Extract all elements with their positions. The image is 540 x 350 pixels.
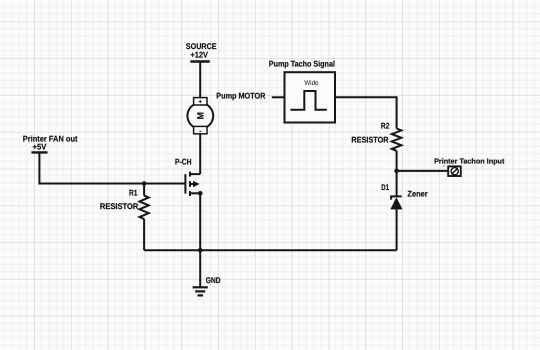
wire (bottom rail)	[144, 249, 397, 251]
junction	[198, 191, 203, 196]
svg-text:Printer FAN out: Printer FAN out	[23, 135, 78, 144]
resistor R1	[100, 184, 149, 251]
wire	[39, 152, 185, 183]
wire	[272, 96, 285, 98]
wire	[396, 151, 398, 171]
junction	[394, 169, 399, 174]
diode D1 (Zener)	[381, 183, 428, 209]
svg-text:M: M	[195, 112, 205, 120]
connector J1 Printer Tachon Input	[434, 156, 505, 176]
svg-text:R1: R1	[129, 189, 138, 198]
transistor Q1 P-CH MOSFET	[175, 157, 200, 196]
power terminal Printer FAN out +5V	[23, 135, 78, 153]
signal box Pump Tacho Signal	[269, 59, 335, 122]
wire	[335, 97, 397, 128]
svg-text:GND: GND	[206, 276, 221, 285]
resistor R2	[351, 121, 401, 150]
svg-text:D1: D1	[381, 183, 389, 192]
wire	[396, 209, 398, 250]
wire	[199, 250, 201, 287]
svg-text:R2: R2	[381, 121, 390, 130]
svg-text:RESISTOR: RESISTOR	[100, 202, 138, 211]
svg-text:+12V: +12V	[190, 51, 208, 60]
svg-text:+5V: +5V	[33, 143, 47, 152]
svg-text:Pump MOTOR: Pump MOTOR	[216, 92, 265, 101]
svg-text:RESISTOR: RESISTOR	[351, 136, 388, 145]
junction	[198, 248, 203, 253]
power terminal SOURCE +12V	[186, 42, 217, 61]
motor M1 (Pump MOTOR)	[187, 98, 213, 135]
wire	[397, 170, 448, 172]
svg-text:1: 1	[443, 164, 445, 168]
wire	[396, 171, 398, 197]
junction	[142, 181, 147, 186]
svg-text:P-CH: P-CH	[175, 157, 192, 166]
svg-text:Pump Tacho Signal: Pump Tacho Signal	[269, 59, 335, 68]
svg-text:Wide: Wide	[304, 80, 318, 87]
ground	[193, 276, 221, 295]
wire	[199, 134, 201, 174]
wire	[199, 193, 201, 250]
svg-text:Zener: Zener	[407, 190, 428, 199]
svg-text:+: +	[199, 100, 203, 106]
wire	[199, 62, 201, 99]
